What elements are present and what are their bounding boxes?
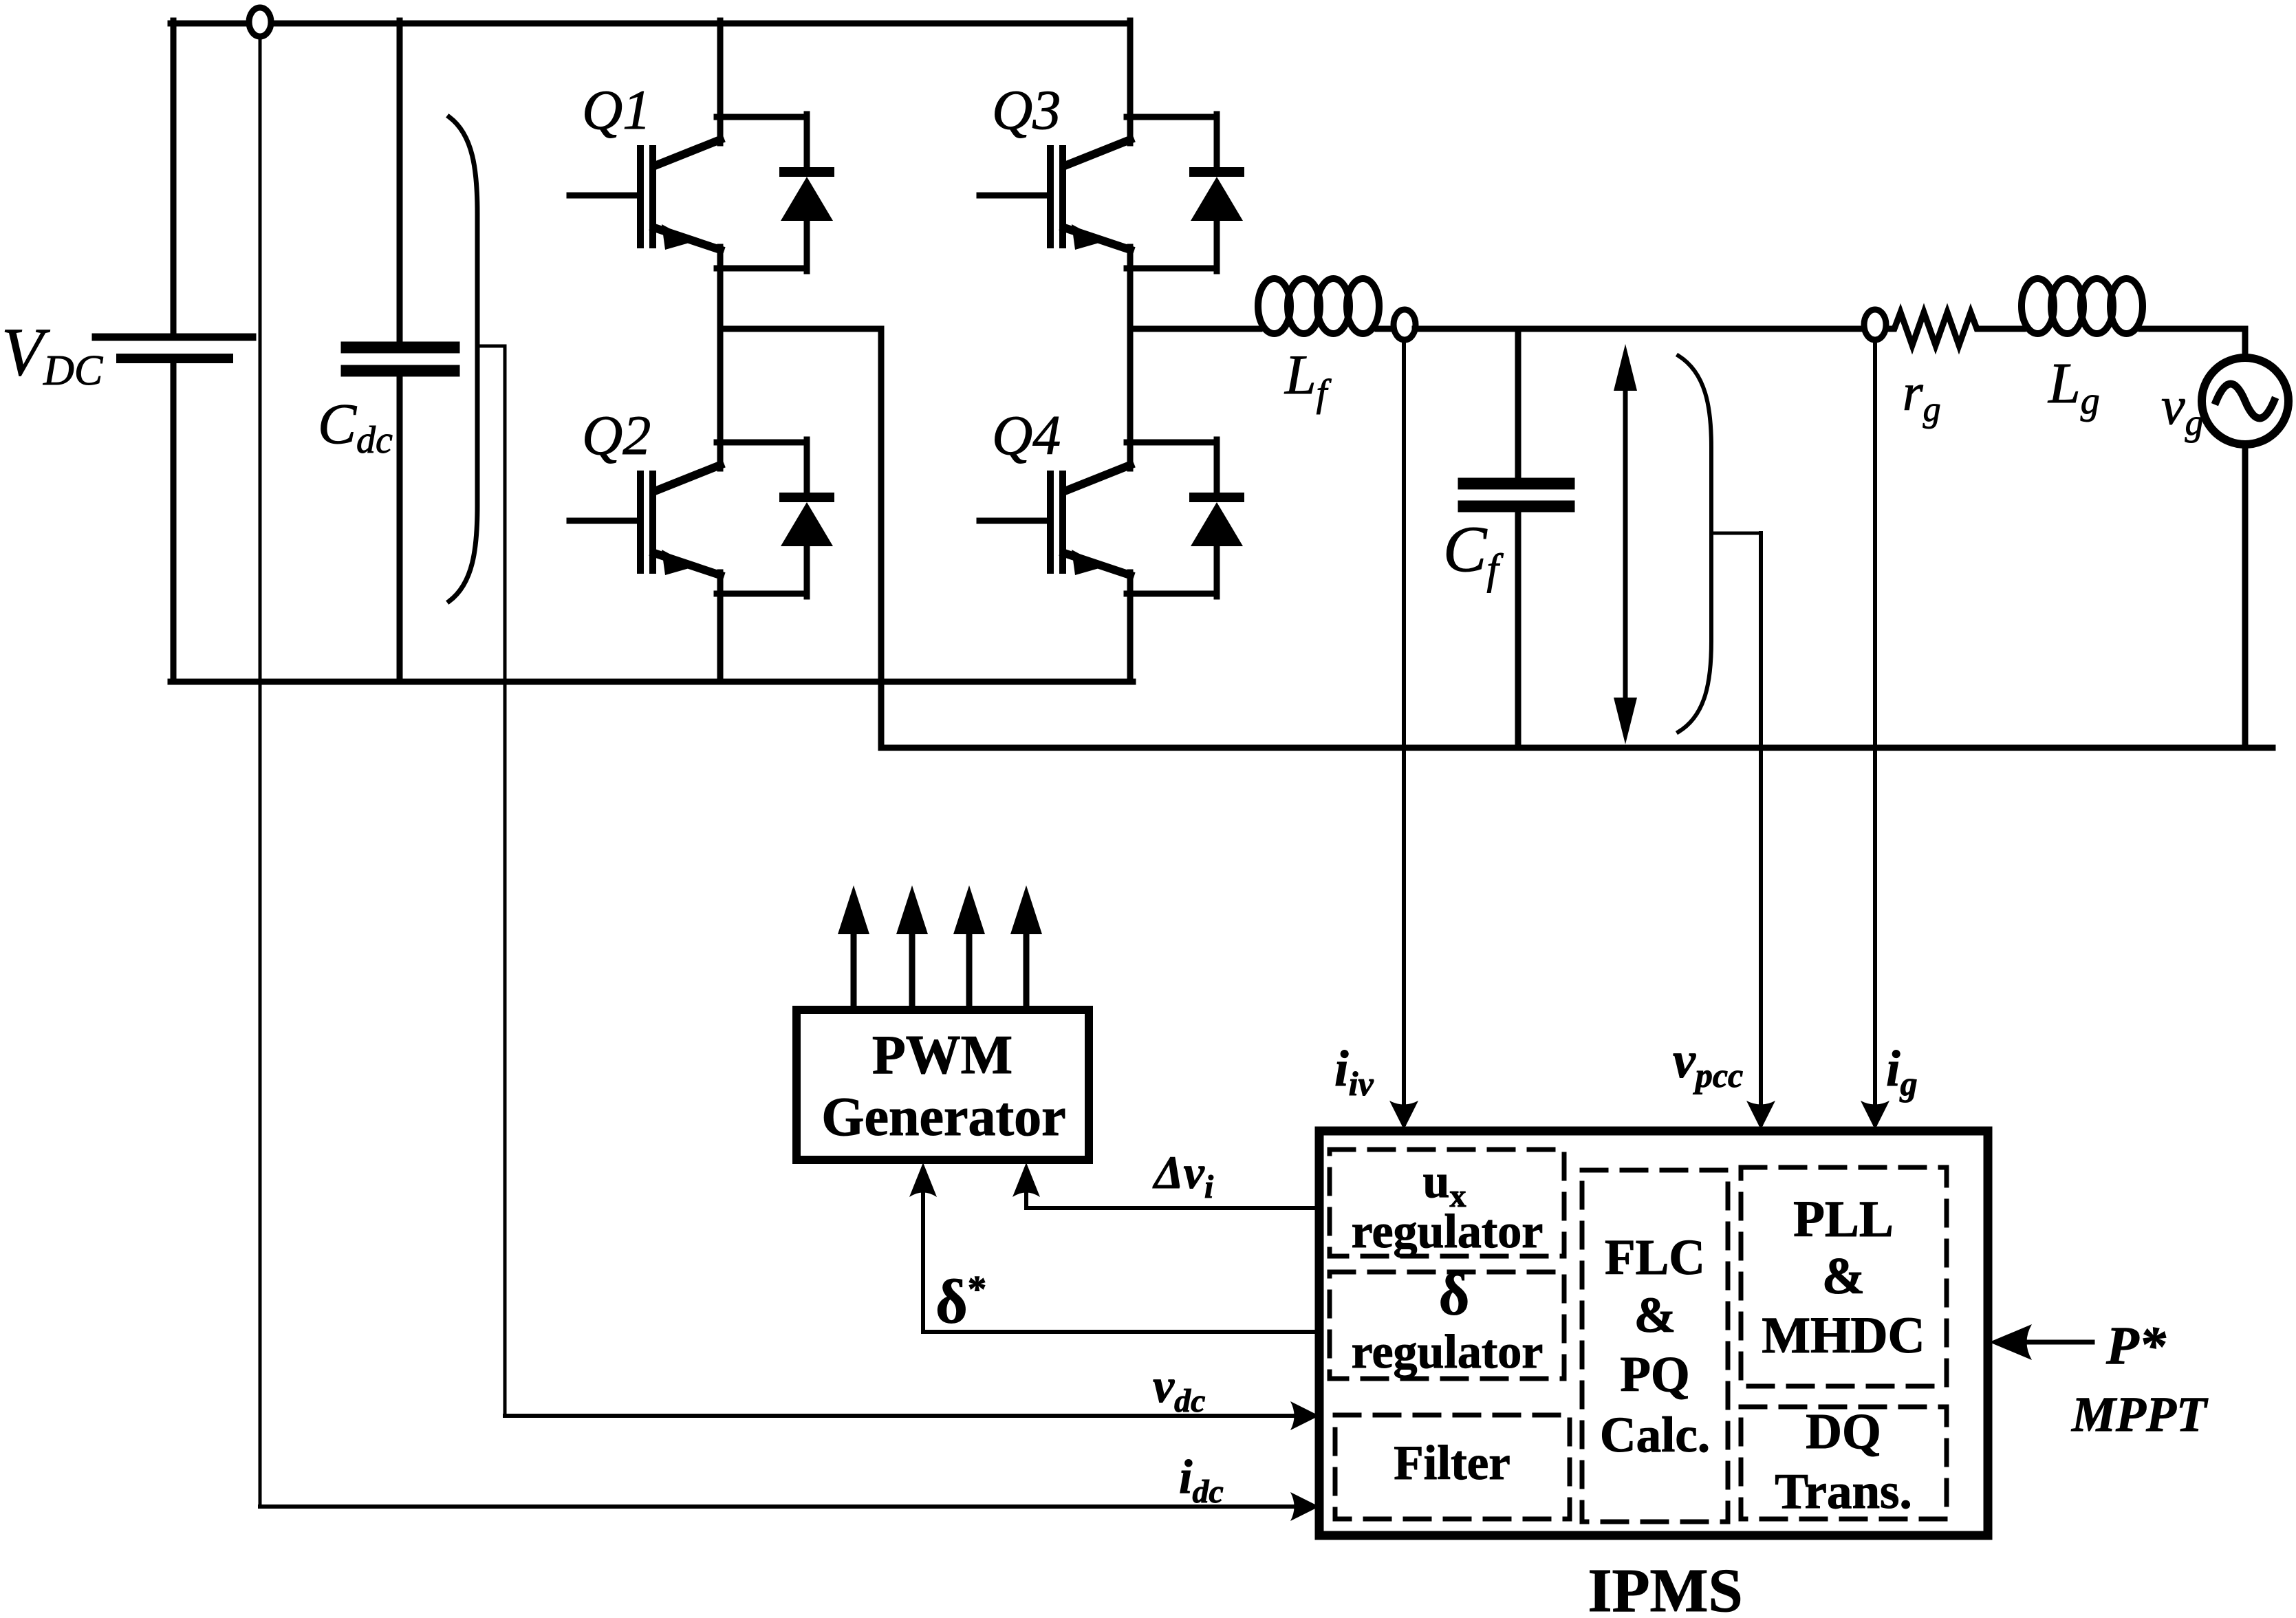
D1 anode bottom wire <box>717 266 807 272</box>
svg-text:IPMS: IPMS <box>1588 1557 1743 1618</box>
transistor Q1 <box>570 117 807 250</box>
svg-text:Generator: Generator <box>821 1087 1065 1147</box>
D1 anode lead <box>804 219 810 271</box>
Q4 collector-diode top wire <box>1127 440 1217 446</box>
svg-text:&: & <box>1822 1248 1865 1305</box>
D4 cathode bar <box>1194 493 1239 502</box>
wire battery negative to bottom rail <box>171 361 177 682</box>
battery V_DC positive plate <box>96 334 252 341</box>
arrow PWM gate signal 3 <box>966 930 973 1010</box>
capacitor C_dc top plate <box>347 342 454 354</box>
D3 anode bottom wire <box>1127 266 1217 272</box>
svg-text:Q4: Q4 <box>992 404 1061 466</box>
D2 triangle <box>781 502 833 546</box>
D3 cathode bar <box>1194 167 1239 177</box>
svg-text:DQ: DQ <box>1806 1403 1881 1459</box>
arrow delta-star into PWM <box>909 1163 937 1197</box>
svg-text:Q3: Q3 <box>992 78 1061 141</box>
wire top DC+ rail <box>171 21 1130 27</box>
svg-text:regulator: regulator <box>1352 1326 1544 1379</box>
Q2 gate lead <box>570 518 637 524</box>
Q4 gate bar <box>1047 474 1054 570</box>
arrow v_pcc into IPMS <box>1746 1101 1775 1130</box>
source v_g (AC) <box>2202 358 2288 444</box>
brace v_pcc measurement <box>1678 356 1711 732</box>
Q3 gate lead <box>979 193 1047 199</box>
Q4 gate lead <box>979 518 1047 524</box>
svg-text:Q1: Q1 <box>582 78 651 141</box>
wire bottom DC- rail <box>171 679 1133 685</box>
block Filter <box>1335 1415 1570 1519</box>
svg-text:MPPT: MPPT <box>2071 1387 2209 1442</box>
transistor Q4 <box>979 442 1217 575</box>
wire delta-star from IPMS to PWM <box>923 1169 1319 1332</box>
node i_g tap (circle) <box>1864 310 1886 340</box>
wire leg2 midpoint to L_f <box>1130 326 1259 332</box>
Q2 body bar <box>649 474 656 570</box>
svg-text:&: & <box>1634 1287 1676 1343</box>
D1 triangle <box>781 177 833 221</box>
diode D3 <box>1127 114 1243 271</box>
wire r_g to L_g <box>1981 326 2023 332</box>
block delta regulator <box>1330 1272 1564 1379</box>
Q1 body bar <box>649 149 656 245</box>
D4 cathode lead <box>1214 440 1220 496</box>
svg-text:P*: P* <box>2105 1315 2167 1375</box>
Q2 emitter arrow <box>662 550 694 575</box>
transistor Q2 <box>570 442 807 575</box>
wire leg2 mid vertical <box>1127 247 1134 468</box>
arrow delta-v_i into PWM <box>1012 1163 1040 1197</box>
wire leg2 lower vertical <box>1127 572 1134 682</box>
svg-text:MHDC: MHDC <box>1762 1307 1925 1364</box>
wire i_iv sense vertical <box>1402 341 1406 1124</box>
D3 triangle <box>1191 177 1243 221</box>
capacitor C_dc bottom plate <box>347 365 454 377</box>
svg-text:PWM: PWM <box>872 1025 1012 1086</box>
D2 cathode lead <box>804 440 810 496</box>
wire leg1 midpoint to neutral jog <box>720 329 881 748</box>
node i_iv tap (circle) <box>1394 310 1416 340</box>
wire leg1 collector drop <box>717 21 724 143</box>
wire L_g to v_g <box>2141 329 2245 357</box>
svg-text:Trans.: Trans. <box>1775 1463 1911 1519</box>
diode D2 <box>717 440 833 596</box>
wire P* MPPT input <box>2022 1340 2092 1345</box>
Q1 emitter slant <box>654 228 720 250</box>
D2 cathode bar <box>784 493 830 502</box>
D1 cathode bar <box>784 167 830 177</box>
battery V_DC negative plate <box>121 354 228 363</box>
svg-text:FLC: FLC <box>1605 1229 1705 1285</box>
wire v_g to neutral rail <box>2242 444 2249 748</box>
resistor r_g <box>1886 312 1981 345</box>
arrow P* into IPMS <box>1989 1324 2032 1360</box>
D3 anode lead <box>1214 219 1220 271</box>
block FLC PQ Calc <box>1582 1170 1728 1522</box>
capacitor C_dc bottom lead <box>397 375 403 682</box>
wire v_dc sense horizontal <box>505 1414 1306 1418</box>
block u_x regulator <box>1330 1150 1564 1256</box>
Q4 emitter arrow <box>1072 550 1104 575</box>
wire node to PCC <box>1415 326 1866 332</box>
svg-text:PQ: PQ <box>1620 1346 1689 1402</box>
Q3 collector-diode top wire <box>1127 114 1217 120</box>
Q1 gate bar <box>637 149 644 245</box>
Q1 collector slant <box>655 140 720 166</box>
arrow v_dc into IPMS <box>1290 1401 1319 1430</box>
Q3 collector slant <box>1065 140 1130 166</box>
svg-text:regulator: regulator <box>1352 1205 1544 1258</box>
capacitor C_dc top lead <box>397 21 403 344</box>
capacitor C_f bottom plate <box>1464 501 1569 513</box>
block DQ Trans <box>1741 1407 1947 1519</box>
Q2 gate bar <box>637 474 644 570</box>
Q2 collector slant <box>655 465 720 491</box>
svg-text:PLL: PLL <box>1793 1191 1894 1248</box>
diode D4 <box>1127 440 1243 596</box>
svg-text:δ: δ <box>1439 1261 1470 1327</box>
Q2 emitter slant <box>654 553 720 575</box>
brace v_dc measurement <box>449 117 477 601</box>
Q4 body bar <box>1059 474 1066 570</box>
Q3 body bar <box>1059 149 1066 245</box>
wire v_pcc sense vertical <box>1759 533 1763 1124</box>
block PWM Generator <box>797 1010 1089 1160</box>
wire delta-v_i from IPMS to PWM <box>1026 1169 1319 1208</box>
diode D1 <box>717 114 833 271</box>
arrow i_dc into IPMS <box>1290 1492 1319 1521</box>
Q3 gate bar <box>1047 149 1054 245</box>
Q3 emitter slant <box>1064 228 1130 250</box>
capacitor C_f top plate <box>1464 478 1569 490</box>
inductor L_g <box>2022 279 2054 334</box>
wire v_dc sense vertical <box>503 346 507 1416</box>
node DC+ sense tap (circle) <box>249 8 271 36</box>
capacitor C_f top lead <box>1515 329 1521 482</box>
block IPMS <box>1319 1131 1988 1535</box>
svg-text:Filter: Filter <box>1394 1436 1510 1490</box>
wire i_dc sense vertical <box>259 36 262 1507</box>
Q4 emitter slant <box>1064 553 1130 575</box>
Q3 emitter arrow <box>1072 224 1104 250</box>
svg-text:Q2: Q2 <box>582 404 651 466</box>
wire v_dc brace step <box>477 345 505 348</box>
arrow v_pcc double-headed indicator <box>1614 344 1637 744</box>
svg-text:Calc.: Calc. <box>1600 1407 1710 1463</box>
D1 cathode lead <box>804 114 810 171</box>
Q1 collector-diode top wire <box>717 114 807 120</box>
wire i_g sense vertical <box>1873 341 1877 1124</box>
D4 triangle <box>1191 502 1243 546</box>
wire leg2 collector drop <box>1127 21 1134 143</box>
transistor Q3 <box>979 117 1217 250</box>
block PLL MHDC <box>1741 1167 1947 1386</box>
D2 anode lead <box>804 544 810 596</box>
inductor L_f <box>1258 279 1290 334</box>
wire leg1 mid vertical <box>717 247 724 468</box>
arrow PWM gate signal 2 <box>909 930 916 1010</box>
Q1 gate lead <box>570 193 637 199</box>
arrow PWM gate signal 4 <box>1024 930 1030 1010</box>
arrow i_g into IPMS <box>1861 1101 1889 1130</box>
D4 anode bottom wire <box>1127 591 1217 597</box>
wire L_f to node <box>1378 326 1396 332</box>
wire v_pcc brace step <box>1711 532 1761 535</box>
Q4 collector slant <box>1065 465 1130 491</box>
D2 anode bottom wire <box>717 591 807 597</box>
Q1 emitter arrow <box>662 224 694 250</box>
wire leg1 lower vertical <box>717 572 724 682</box>
arrow PWM gate signal 1 <box>851 930 857 1010</box>
wire neutral rail <box>881 745 2273 751</box>
wire i_dc sense horizontal <box>260 1504 1306 1509</box>
arrow i_iv into IPMS <box>1389 1101 1418 1130</box>
capacitor C_f bottom lead <box>1515 510 1521 748</box>
wire left DC+ drop to battery <box>171 21 177 334</box>
D4 anode lead <box>1214 544 1220 596</box>
Q2 collector-diode top wire <box>717 440 807 446</box>
D3 cathode lead <box>1214 114 1220 171</box>
